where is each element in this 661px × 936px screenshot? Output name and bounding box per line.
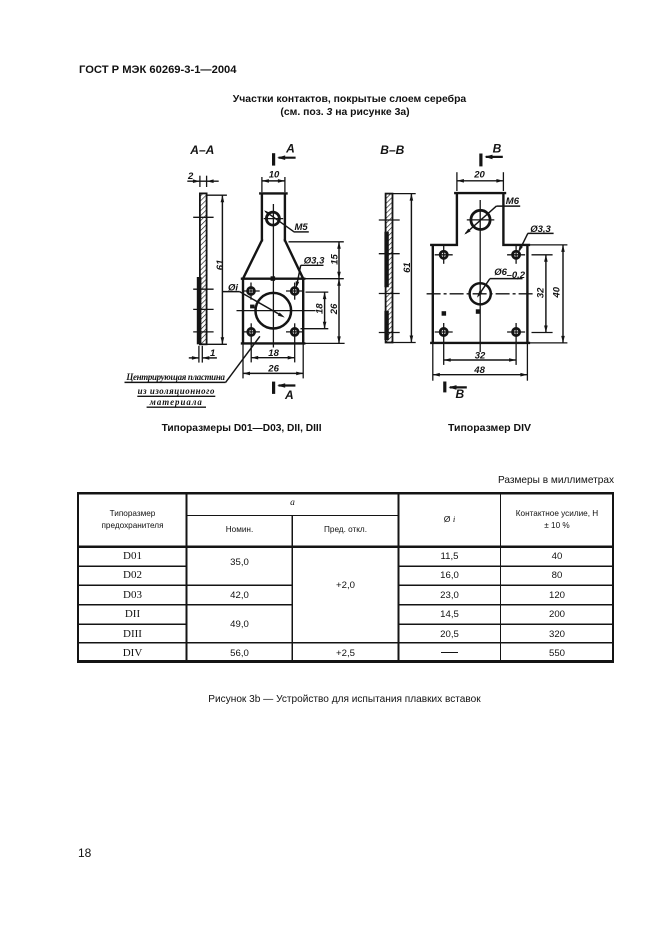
small hole BL bbox=[435, 323, 453, 365]
dim 61 (plate height) bbox=[207, 194, 227, 196]
hole M6 bbox=[471, 210, 490, 229]
dim 10 (neck width) bbox=[261, 177, 263, 192]
dim 32 (bottom) bbox=[444, 359, 516, 361]
callout leader to insulating plate bbox=[226, 336, 260, 382]
section cutting mark B (bottom) bbox=[443, 382, 446, 393]
column verticals bbox=[185, 493, 187, 662]
leader M5 bbox=[265, 211, 294, 231]
width extension lines below bbox=[432, 343, 434, 380]
dim 26 (right) bbox=[338, 279, 340, 344]
small hole TR bbox=[507, 246, 525, 264]
dim 61 bbox=[393, 193, 416, 195]
part outline bbox=[242, 193, 304, 343]
table body col1 (serif) bbox=[79, 547, 186, 663]
dim 18 (right) bbox=[324, 292, 326, 329]
small hole BL bbox=[243, 323, 260, 362]
section cutting mark B (top) bbox=[479, 154, 482, 167]
row lines bbox=[78, 565, 187, 567]
horizontal centerline bbox=[237, 310, 316, 312]
hole row extensions right bbox=[532, 254, 553, 256]
silver layer segments bbox=[384, 232, 388, 288]
dim 32 (right) bbox=[545, 255, 547, 333]
hole row extensions bbox=[306, 291, 329, 293]
horizontal centerline (dash-dot) bbox=[427, 293, 534, 295]
plate section body (hatched) bbox=[386, 194, 393, 343]
section cutting mark A (top) bbox=[272, 153, 275, 165]
right side: shoulder extension bbox=[289, 241, 344, 243]
feature level ticks bbox=[379, 219, 400, 221]
col2 bbox=[187, 557, 292, 568]
small hole TL bbox=[242, 283, 259, 300]
label under right drawing bbox=[415, 422, 565, 434]
surface marks bbox=[271, 276, 276, 281]
dim 2 (plate thickness) bbox=[199, 176, 201, 187]
col5 bbox=[501, 547, 613, 663]
width extension lines below bbox=[242, 344, 244, 379]
rect-top extension bbox=[304, 278, 344, 280]
outer frame thick bbox=[77, 492, 614, 495]
line under 'a' bbox=[187, 515, 399, 517]
small hole TR bbox=[286, 283, 303, 300]
page number bbox=[78, 846, 91, 860]
table header texts bbox=[79, 508, 186, 531]
section cutting mark A (bottom) bbox=[272, 382, 275, 394]
dim 20 (neck width) bbox=[456, 172, 458, 191]
part outline bbox=[431, 193, 529, 343]
big hole (diameter i) bbox=[255, 293, 291, 329]
vertical centerline bbox=[479, 200, 481, 352]
label under left drawing bbox=[127, 423, 357, 434]
surface marks bbox=[442, 311, 447, 316]
central hole dia 6 bbox=[470, 283, 491, 304]
small hole TL bbox=[435, 246, 453, 264]
header: document number bbox=[79, 64, 237, 76]
silver contact layer (solid) bbox=[197, 277, 202, 344]
feature level ticks bbox=[193, 216, 213, 218]
dim 26 (bottom) bbox=[243, 372, 303, 374]
header bottom thick bbox=[78, 545, 613, 547]
bottom edge extension right bbox=[304, 342, 344, 344]
vertical centerline bbox=[272, 204, 274, 348]
title line 1 bbox=[19, 94, 661, 105]
leader M6 bbox=[466, 206, 497, 233]
dim 48 (bottom) bbox=[433, 374, 528, 376]
dim 15 bbox=[338, 242, 340, 279]
figure caption bbox=[14, 694, 661, 705]
extensions of shoulder and bottom to the right bbox=[529, 244, 568, 246]
hole M5 bbox=[266, 212, 279, 225]
col4 bbox=[399, 547, 500, 663]
col3 bbox=[293, 580, 398, 591]
small hole BR bbox=[286, 323, 303, 362]
'sizes in mm' note bbox=[313, 475, 614, 486]
title line 2 bbox=[15, 107, 661, 118]
dim 1 (silver layer thickness) bbox=[198, 346, 200, 363]
dim 40 (right) bbox=[562, 245, 564, 343]
small hole BR bbox=[507, 323, 525, 365]
dim 18 (bottom) bbox=[251, 357, 295, 359]
plate section body (hatched) bbox=[200, 193, 207, 344]
